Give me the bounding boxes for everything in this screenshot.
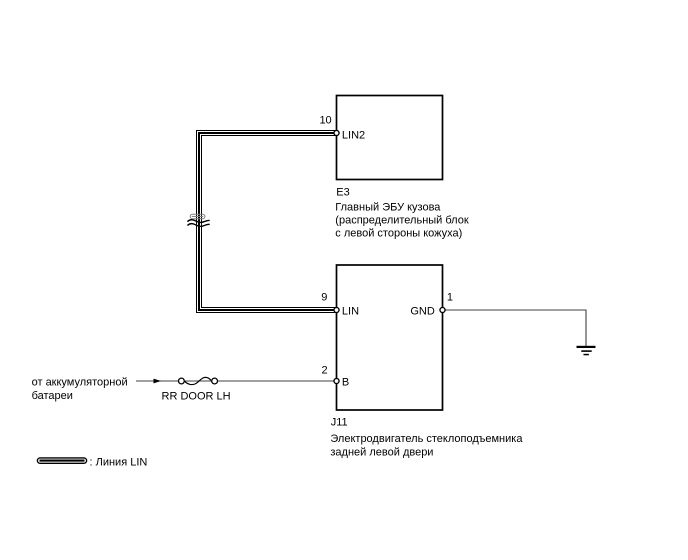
svg-text:батареи: батареи: [32, 390, 73, 402]
svg-text:от аккумуляторной: от аккумуляторной: [32, 376, 128, 388]
svg-text:LIN: LIN: [342, 306, 359, 318]
svg-text:1: 1: [447, 291, 453, 303]
svg-text:2: 2: [321, 364, 327, 376]
svg-text:10: 10: [319, 114, 331, 126]
svg-text:B: B: [342, 377, 349, 389]
svg-text:RR DOOR LH: RR DOOR LH: [162, 390, 231, 402]
svg-text:J11: J11: [331, 416, 348, 428]
svg-text:Электродвигатель стеклоподъемн: Электродвигатель стеклоподъемника: [330, 433, 523, 445]
svg-text:E3: E3: [336, 186, 349, 198]
svg-text:GND: GND: [410, 306, 435, 318]
svg-text:(распределительный блок: (распределительный блок: [335, 214, 469, 226]
svg-text:с левой стороны кожуха): с левой стороны кожуха): [335, 228, 462, 240]
svg-text:9: 9: [321, 291, 327, 303]
svg-text:LIN2: LIN2: [342, 129, 365, 141]
svg-text:задней левой двери: задней левой двери: [330, 447, 433, 459]
svg-text:: Линия LIN: : Линия LIN: [90, 457, 148, 469]
svg-text:Главный ЭБУ кузова: Главный ЭБУ кузова: [335, 201, 441, 213]
